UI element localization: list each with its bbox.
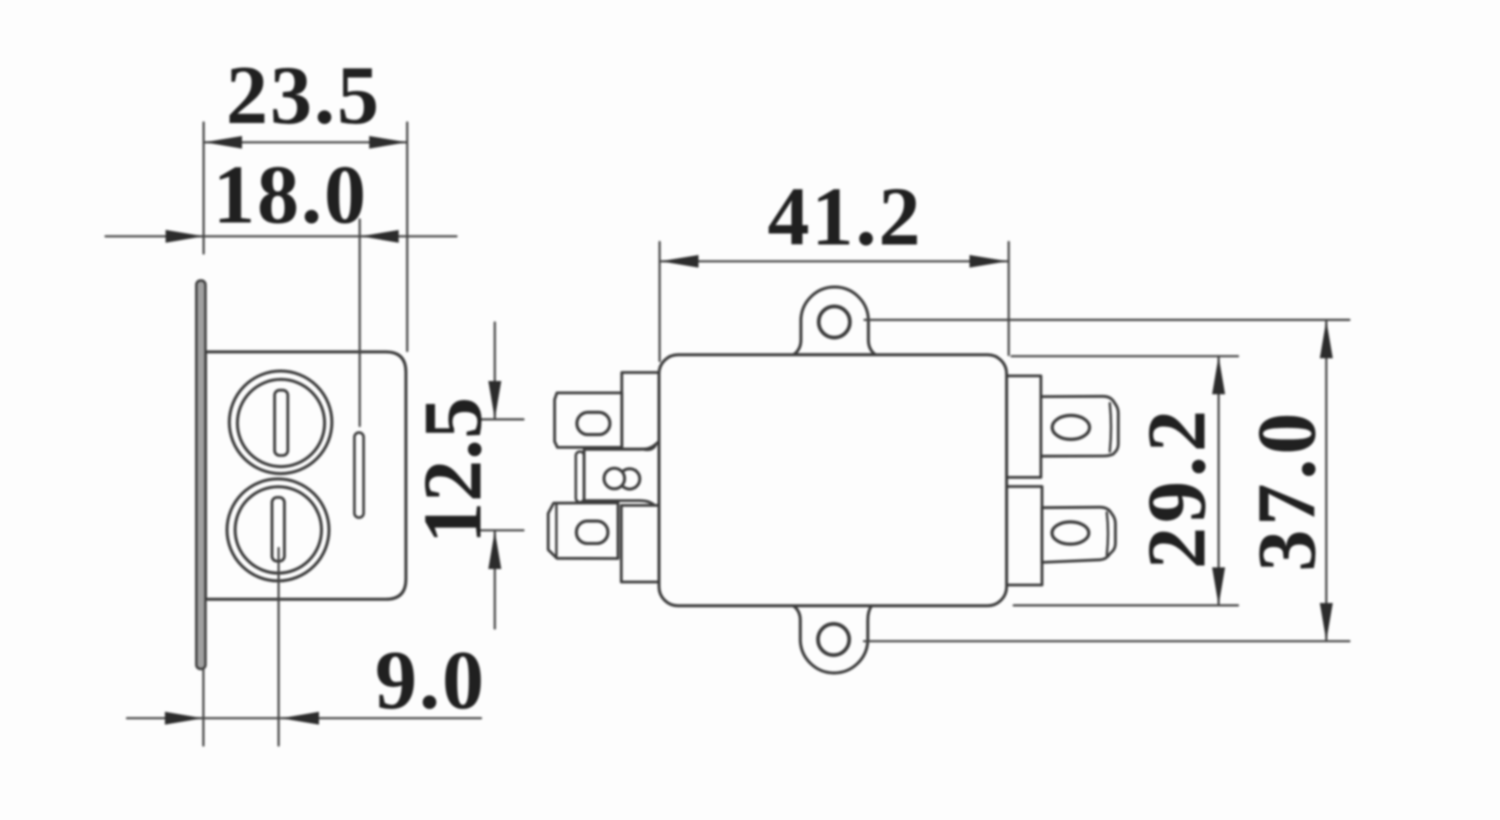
left lower terminal block	[621, 505, 661, 582]
left lower spade blade	[548, 503, 618, 559]
arrow 41.2 left	[661, 255, 699, 268]
lower receptacle outer circle	[227, 479, 329, 581]
svg-text:29.2: 29.2	[1131, 406, 1224, 569]
extension line 29.2 bottom	[1014, 604, 1238, 606]
right lower terminal block	[1006, 487, 1042, 586]
extension line 9.0 right	[278, 548, 280, 746]
extension line 9.0 left	[202, 669, 204, 746]
arrow 37.0 bottom	[1320, 603, 1333, 641]
right view body	[659, 355, 1007, 606]
ground hole left ring	[604, 468, 625, 489]
arrow 18.0 right (points left)	[361, 230, 399, 243]
svg-text:23.5: 23.5	[226, 49, 381, 142]
svg-text:12.5: 12.5	[407, 397, 500, 544]
arrow 9.0 right (points left)	[281, 712, 319, 725]
extension line 37.0 bottom	[864, 640, 1349, 642]
bottom ear hole	[818, 624, 849, 655]
panel flange	[196, 281, 205, 670]
extension line 41.2 right	[1008, 242, 1010, 355]
extension line 41.2 left	[658, 242, 660, 361]
ground hole right ring	[619, 469, 639, 489]
lower receptacle slot	[272, 497, 284, 561]
svg-text:41.2: 41.2	[768, 171, 923, 264]
right lower blade tip lip	[1107, 513, 1108, 556]
arrow 29.2 bottom	[1212, 567, 1225, 605]
dimension line 18.0	[106, 235, 457, 237]
dimension line 12.5 upper	[494, 323, 496, 419]
extension line 29.2 top	[1012, 355, 1238, 357]
lower block corner chamfer	[644, 506, 656, 513]
arrow 9.0 left (points right)	[165, 712, 203, 725]
extension line 23.5 right	[406, 123, 408, 352]
right upper spade blade	[1041, 396, 1118, 456]
svg-text:18.0: 18.0	[213, 149, 368, 242]
arrow 41.2 right	[970, 255, 1008, 268]
arrow 23.5 right	[369, 136, 407, 149]
arrow 37.0 top	[1320, 320, 1333, 358]
right lower spade blade	[1042, 507, 1115, 562]
left upper blade hole	[577, 412, 610, 434]
left lower blade lip	[555, 504, 557, 558]
extension line 23.5 left	[203, 123, 205, 254]
svg-text:37.0: 37.0	[1241, 409, 1334, 572]
arrow 12.5 bottom (points up)	[488, 531, 501, 569]
arrow 18.0 left (points right)	[166, 230, 204, 243]
right upper terminal block	[1004, 376, 1041, 478]
ground pin edge bar	[576, 452, 584, 503]
upper receptacle slot	[275, 390, 288, 455]
upper block to body fillet	[643, 446, 656, 450]
extension line 18.0 right	[359, 220, 361, 427]
dimension line 12.5 lower	[494, 531, 496, 629]
fuse slot bar	[354, 433, 363, 518]
ground terminal block	[584, 441, 659, 511]
arrow 23.5 left	[204, 136, 242, 149]
right upper blade hole	[1052, 415, 1089, 439]
lower receptacle inner circle	[235, 487, 321, 573]
left view body	[206, 352, 406, 599]
right lower blade hole	[1052, 522, 1089, 544]
top mounting ear	[794, 287, 876, 355]
dimension line 41.2	[661, 260, 1008, 262]
svg-text:9.0: 9.0	[375, 634, 486, 727]
tick 12.5 top	[481, 418, 524, 420]
left upper terminal block	[622, 373, 662, 450]
dimension line 23.5	[204, 141, 407, 143]
dimension line 37.0	[1325, 320, 1327, 641]
upper receptacle inner circle	[237, 379, 324, 466]
dimension line 29.2	[1217, 356, 1219, 605]
left lower blade hole	[576, 521, 608, 543]
left upper spade blade	[555, 393, 622, 448]
arrow 29.2 top	[1212, 356, 1225, 394]
arrow 12.5 top (points down)	[488, 381, 501, 419]
dimension line 9.0	[127, 717, 481, 719]
extension line 37.0 top	[865, 319, 1350, 321]
right upper blade tip lip	[1110, 403, 1111, 451]
bottom mounting ear	[793, 606, 872, 673]
upper receptacle outer circle	[229, 371, 332, 474]
tick 12.5 bottom	[481, 529, 524, 531]
top ear hole	[819, 306, 850, 337]
